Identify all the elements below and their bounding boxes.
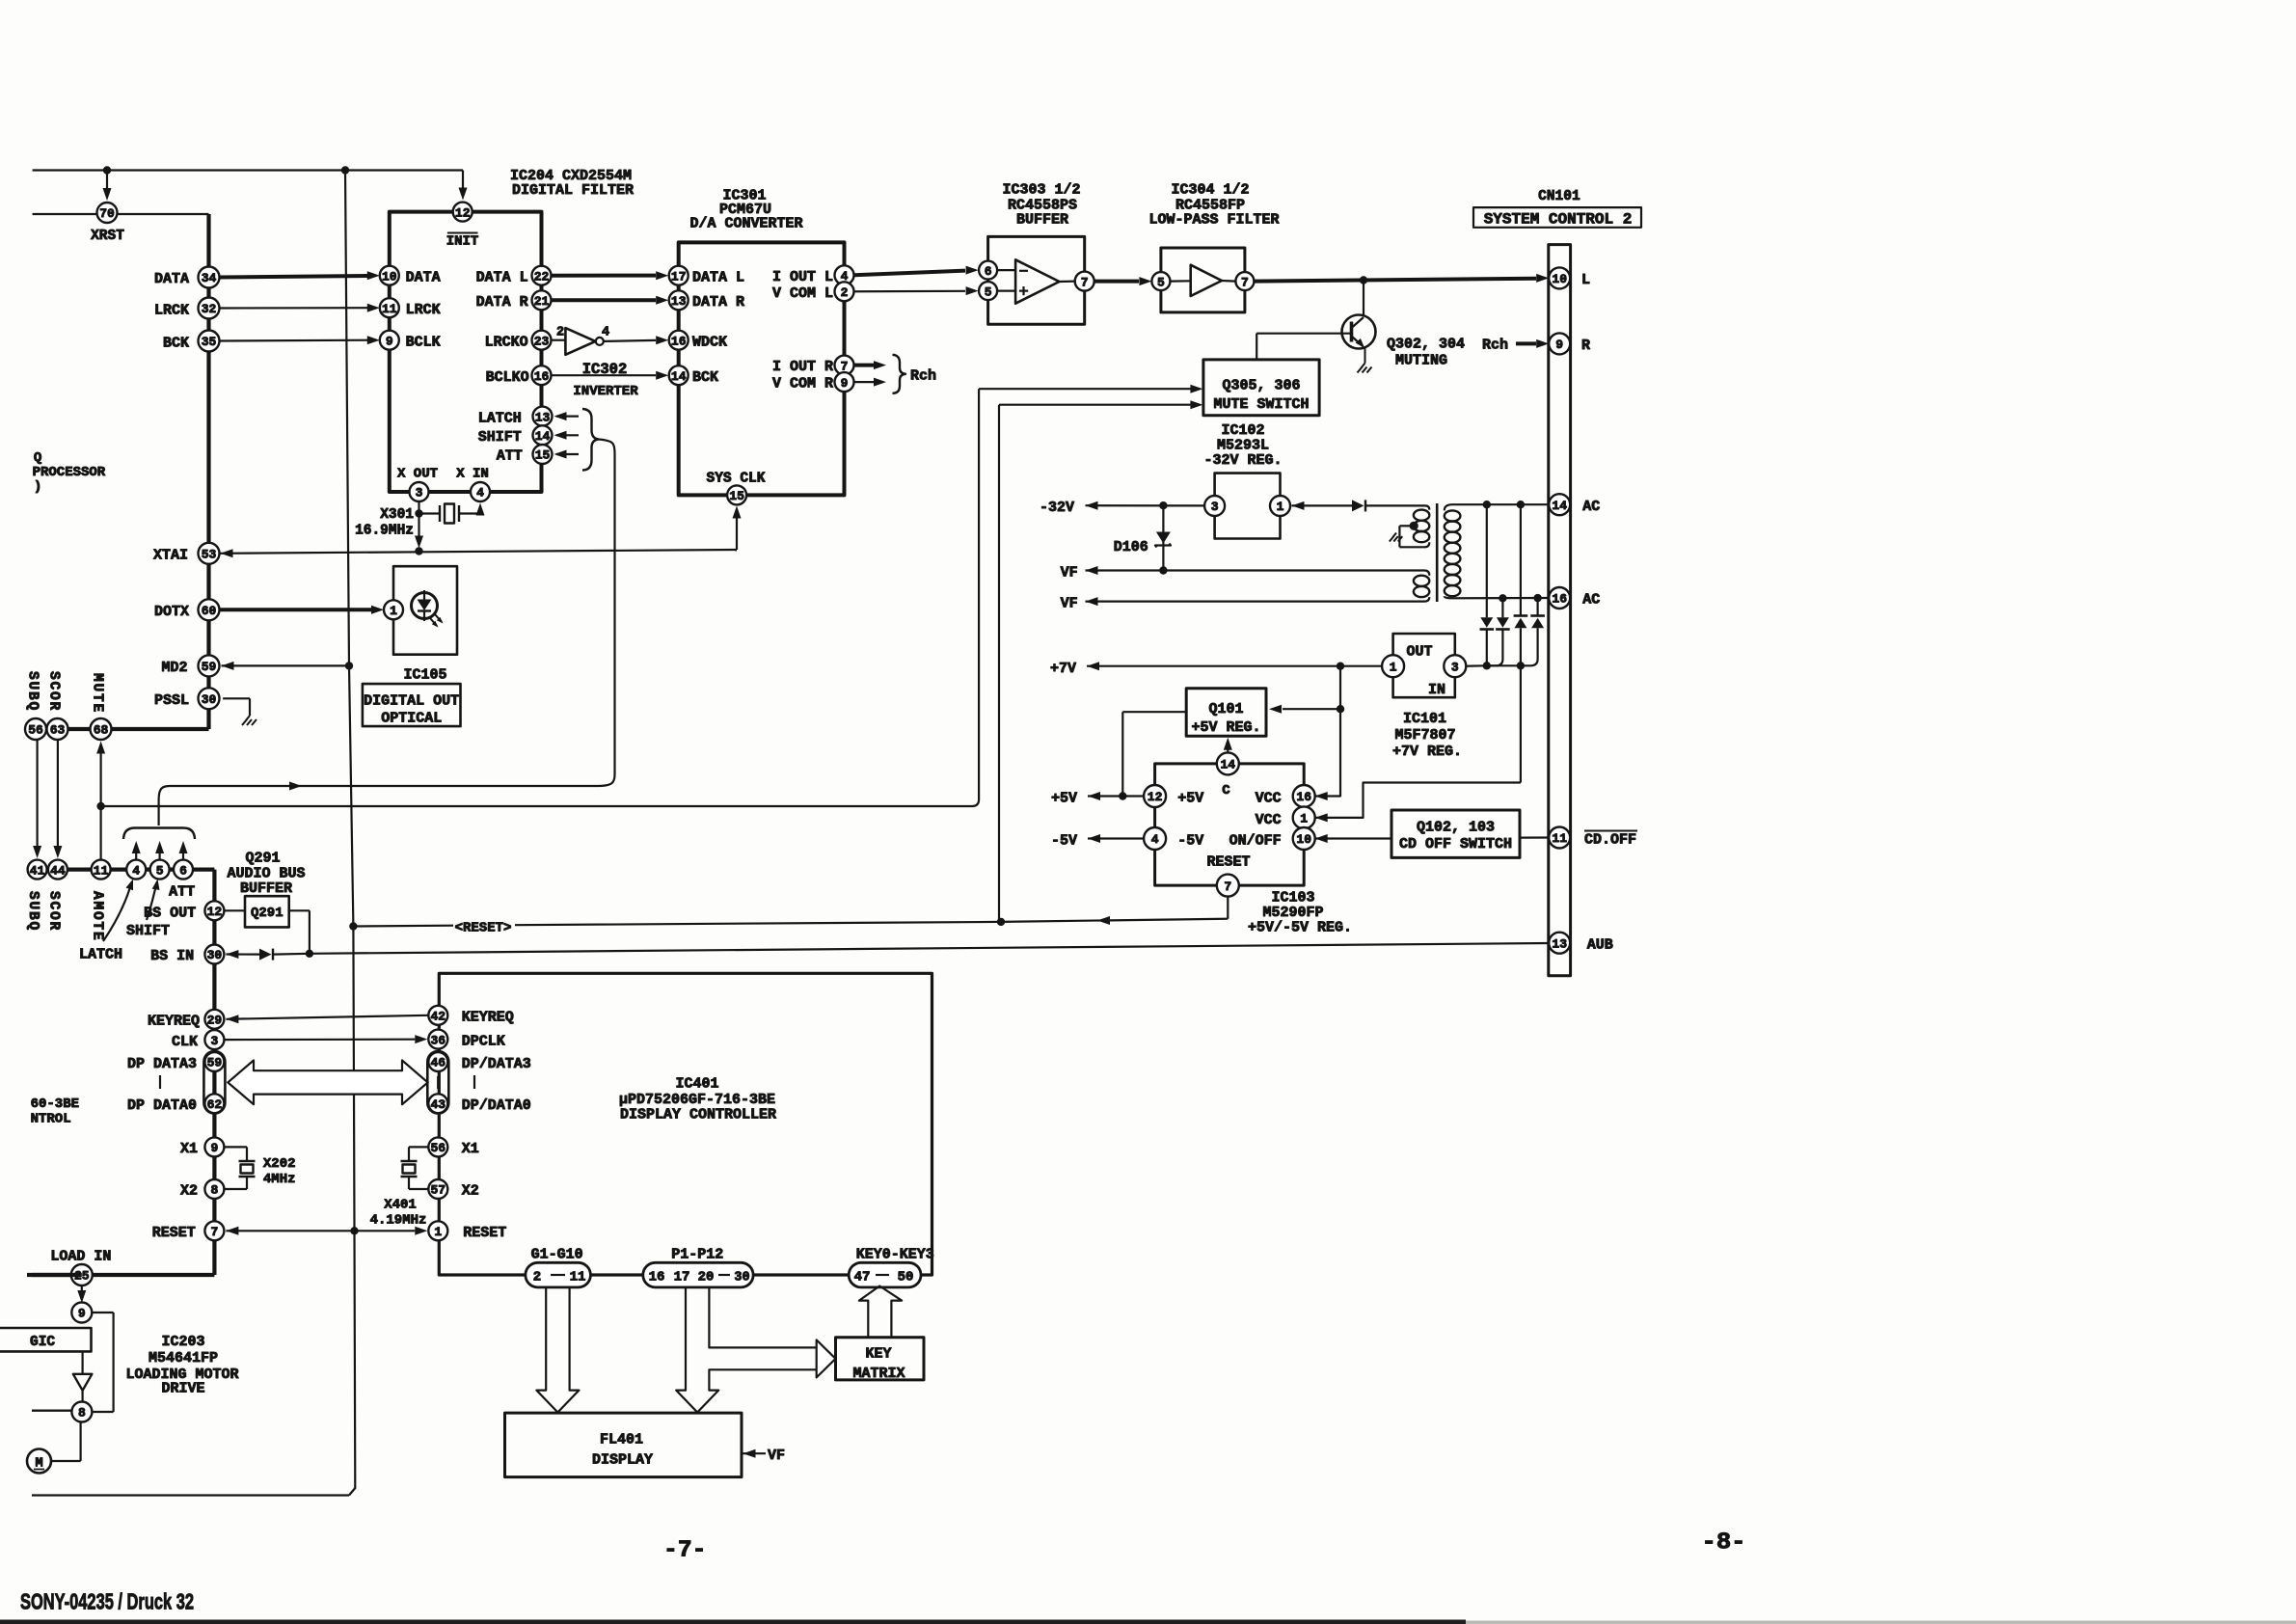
- svg-text:DP DATA0: DP DATA0: [127, 1097, 197, 1114]
- svg-text:+5V REG.: +5V REG.: [1191, 719, 1260, 736]
- svg-text:M5F7807: M5F7807: [1394, 727, 1455, 744]
- svg-text:MUTE: MUTE: [90, 673, 105, 714]
- svg-text:LATCH: LATCH: [79, 947, 122, 963]
- svg-text:57: 57: [430, 1183, 446, 1198]
- svg-text:Q101: Q101: [1208, 701, 1243, 717]
- svg-text:60: 60: [202, 604, 217, 618]
- svg-text:46: 46: [430, 1056, 446, 1070]
- svg-text:M54641FP: M54641FP: [149, 1350, 218, 1367]
- svg-text:CN101: CN101: [1538, 189, 1580, 204]
- svg-text:LOW-PASS FILTER: LOW-PASS FILTER: [1148, 212, 1279, 229]
- svg-text:3: 3: [1451, 660, 1459, 674]
- svg-text:30: 30: [207, 948, 223, 962]
- svg-text:4: 4: [476, 486, 484, 501]
- svg-text:21: 21: [534, 294, 550, 309]
- svg-text:6: 6: [985, 264, 992, 279]
- svg-text:BUFFER: BUFFER: [1016, 212, 1068, 229]
- svg-text:47: 47: [854, 1270, 871, 1286]
- svg-text:M5290FP: M5290FP: [1262, 905, 1323, 921]
- svg-text:3: 3: [416, 486, 423, 501]
- svg-text:LRCK: LRCK: [406, 302, 441, 318]
- svg-text:30: 30: [202, 692, 217, 707]
- svg-text:<RESET>: <RESET>: [455, 921, 512, 936]
- svg-text:BCK: BCK: [692, 369, 718, 386]
- svg-text:-5V: -5V: [1177, 833, 1203, 850]
- svg-text:36: 36: [430, 1033, 446, 1047]
- svg-text:X301: X301: [380, 507, 414, 523]
- svg-text:4: 4: [132, 863, 140, 878]
- svg-text:SCOR: SCOR: [46, 671, 62, 712]
- svg-text:OUT: OUT: [1406, 644, 1432, 661]
- svg-text:MUTE SWITCH: MUTE SWITCH: [1213, 396, 1309, 413]
- svg-text:44: 44: [50, 863, 66, 878]
- svg-text:INIT: INIT: [446, 234, 479, 250]
- svg-text:5: 5: [985, 284, 992, 299]
- svg-text:): ): [34, 479, 41, 495]
- svg-text:16: 16: [671, 334, 687, 348]
- svg-text:32: 32: [202, 302, 217, 316]
- svg-text:IC203: IC203: [161, 1334, 204, 1350]
- svg-text:AMOTE: AMOTE: [90, 891, 105, 942]
- svg-text:34: 34: [202, 271, 217, 285]
- svg-text:10: 10: [382, 269, 397, 284]
- svg-text:L: L: [1581, 272, 1590, 288]
- svg-text:X1: X1: [180, 1141, 198, 1157]
- svg-text:Q: Q: [34, 450, 41, 466]
- svg-text:DP DATA3: DP DATA3: [127, 1056, 197, 1072]
- svg-text:IC303 1/2: IC303 1/2: [1002, 182, 1080, 199]
- svg-text:I OUT R: I OUT R: [772, 359, 833, 375]
- svg-text:+7V: +7V: [1050, 661, 1076, 677]
- svg-text:AUB: AUB: [1587, 937, 1613, 954]
- svg-text:BCK: BCK: [163, 336, 189, 352]
- svg-text:15: 15: [535, 448, 551, 463]
- svg-text:DATA R: DATA R: [692, 294, 744, 311]
- svg-text:IC105: IC105: [403, 667, 446, 684]
- svg-text:3: 3: [1211, 500, 1219, 514]
- svg-text:+7V REG.: +7V REG.: [1392, 744, 1462, 760]
- svg-text:4: 4: [602, 326, 609, 340]
- svg-text:7: 7: [1081, 275, 1089, 289]
- svg-text:14: 14: [1220, 758, 1235, 772]
- svg-text:LRCKO: LRCKO: [485, 335, 528, 351]
- svg-text:V COM L: V COM L: [772, 285, 833, 302]
- svg-text:22: 22: [534, 269, 550, 284]
- svg-text:13: 13: [535, 410, 551, 424]
- svg-text:60-3BE: 60-3BE: [31, 1096, 79, 1112]
- svg-text:KEY: KEY: [865, 1346, 891, 1363]
- svg-text:12: 12: [207, 905, 223, 919]
- svg-text:Q302, 304: Q302, 304: [1387, 337, 1465, 353]
- svg-text:DRIVE: DRIVE: [161, 1381, 204, 1397]
- svg-text:16: 16: [534, 369, 550, 384]
- svg-text:AUDIO BUS: AUDIO BUS: [227, 866, 305, 882]
- svg-text:SHIFT: SHIFT: [126, 923, 170, 939]
- svg-text:IC102: IC102: [1221, 422, 1264, 439]
- svg-text:IC101: IC101: [1403, 711, 1446, 727]
- svg-text:R: R: [1581, 338, 1590, 354]
- svg-text:KEY0-KEY3: KEY0-KEY3: [856, 1247, 934, 1263]
- svg-text:DIGITAL OUT: DIGITAL OUT: [364, 693, 459, 710]
- svg-text:11: 11: [94, 863, 109, 878]
- svg-text:D/A CONVERTER: D/A CONVERTER: [689, 216, 802, 232]
- svg-text:CLK: CLK: [172, 1034, 198, 1050]
- svg-text:63: 63: [50, 723, 66, 738]
- svg-text:MUTING: MUTING: [1395, 353, 1447, 369]
- svg-text:Q102, 103: Q102, 103: [1417, 820, 1495, 836]
- svg-text:7: 7: [210, 1225, 218, 1239]
- svg-text:G1-G10: G1-G10: [531, 1247, 583, 1263]
- svg-text:KEYREQ: KEYREQ: [148, 1014, 200, 1030]
- svg-text:C: C: [1222, 783, 1230, 798]
- svg-text:+5V/-5V REG.: +5V/-5V REG.: [1248, 920, 1352, 936]
- svg-text:V COM R: V COM R: [772, 376, 833, 392]
- svg-text:IC103: IC103: [1271, 890, 1314, 907]
- svg-text:NTROL: NTROL: [31, 1112, 71, 1127]
- svg-text:1: 1: [1277, 500, 1284, 514]
- svg-text:X IN: X IN: [456, 467, 489, 482]
- svg-text:+5V: +5V: [1177, 791, 1203, 807]
- svg-text:50: 50: [898, 1270, 914, 1286]
- svg-text:BCLKO: BCLKO: [486, 369, 529, 386]
- svg-text:12: 12: [455, 205, 471, 220]
- svg-text:8: 8: [210, 1183, 218, 1198]
- svg-text:Rch: Rch: [910, 368, 936, 385]
- svg-text:68: 68: [94, 723, 109, 738]
- svg-text:9: 9: [210, 1141, 218, 1155]
- svg-text:9: 9: [841, 376, 849, 391]
- svg-text:53: 53: [202, 547, 217, 561]
- svg-text:I OUT L: I OUT L: [772, 269, 833, 285]
- svg-text:-8-: -8-: [1702, 1530, 1746, 1556]
- svg-text:X202: X202: [263, 1156, 296, 1172]
- svg-text:SUBQ: SUBQ: [25, 891, 41, 932]
- svg-text:13: 13: [1552, 936, 1567, 951]
- svg-text:56: 56: [28, 723, 43, 738]
- svg-text:20: 20: [698, 1270, 715, 1286]
- svg-text:GIC: GIC: [30, 1335, 55, 1350]
- svg-text:11: 11: [382, 302, 397, 316]
- svg-text:PROCESSOR: PROCESSOR: [33, 465, 106, 480]
- svg-text:59: 59: [207, 1056, 223, 1070]
- svg-text:DISPLAY: DISPLAY: [592, 1452, 653, 1469]
- svg-text:13: 13: [671, 294, 687, 309]
- svg-text:XTAI: XTAI: [153, 548, 188, 564]
- svg-text:SYSTEM CONTROL 2: SYSTEM CONTROL 2: [1484, 210, 1633, 228]
- svg-text:VF: VF: [1061, 596, 1078, 612]
- svg-text:10: 10: [1552, 272, 1567, 286]
- svg-text:2: 2: [841, 285, 849, 300]
- svg-text:7: 7: [1224, 880, 1231, 894]
- svg-text:RESET: RESET: [1206, 854, 1250, 871]
- svg-text:DOTX: DOTX: [154, 604, 189, 620]
- svg-text:7: 7: [1241, 275, 1249, 289]
- svg-text:+5V: +5V: [1051, 791, 1077, 807]
- svg-text:AC: AC: [1582, 499, 1600, 515]
- svg-text:BS IN: BS IN: [150, 948, 194, 964]
- svg-text:9: 9: [386, 334, 393, 348]
- svg-text:15: 15: [729, 489, 744, 503]
- svg-text:SYS CLK: SYS CLK: [707, 472, 766, 487]
- svg-text:OPTICAL: OPTICAL: [381, 711, 442, 727]
- svg-text:VF: VF: [1061, 565, 1078, 582]
- svg-text:IN: IN: [1428, 682, 1445, 698]
- svg-text:PSSL: PSSL: [154, 692, 189, 709]
- svg-text:SONY-04235 / Druck 32: SONY-04235 / Druck 32: [20, 1589, 194, 1614]
- svg-text:43: 43: [430, 1097, 446, 1112]
- svg-text:6: 6: [179, 863, 187, 878]
- svg-text:SUBQ: SUBQ: [25, 671, 41, 712]
- svg-text:4MHz: 4MHz: [263, 1172, 296, 1187]
- svg-text:Q305, 306: Q305, 306: [1222, 378, 1300, 394]
- svg-text:MATRIX: MATRIX: [852, 1366, 905, 1382]
- svg-text:8: 8: [78, 1406, 86, 1421]
- svg-text:16.9MHz: 16.9MHz: [355, 524, 414, 539]
- svg-text:X2: X2: [462, 1183, 479, 1200]
- svg-text:M5293L: M5293L: [1217, 438, 1269, 454]
- svg-text:X OUT: X OUT: [397, 467, 438, 482]
- svg-text:X2: X2: [180, 1183, 198, 1200]
- svg-text:11: 11: [1552, 831, 1567, 846]
- svg-text:9: 9: [1555, 338, 1563, 352]
- svg-text:BS OUT: BS OUT: [144, 905, 196, 921]
- svg-text:VCC: VCC: [1256, 812, 1282, 828]
- svg-text:5: 5: [156, 863, 164, 878]
- svg-text:DATA L: DATA L: [476, 270, 528, 286]
- svg-text:DP/DATA0: DP/DATA0: [462, 1097, 531, 1114]
- svg-text:Q291: Q291: [245, 851, 280, 867]
- svg-text:2: 2: [533, 1270, 541, 1286]
- svg-text:MD2: MD2: [161, 660, 187, 676]
- svg-text:RESET: RESET: [152, 1225, 196, 1241]
- svg-text:29: 29: [207, 1013, 223, 1027]
- svg-text:12: 12: [1148, 790, 1163, 804]
- svg-text:BCLK: BCLK: [406, 335, 441, 351]
- svg-text:AC: AC: [1582, 592, 1600, 609]
- svg-text:SHIFT: SHIFT: [478, 429, 522, 446]
- svg-text:2: 2: [556, 326, 564, 340]
- svg-text:70: 70: [99, 206, 115, 221]
- svg-text:DISPLAY CONTROLLER: DISPLAY CONTROLLER: [620, 1106, 776, 1123]
- svg-text:4: 4: [1151, 832, 1159, 847]
- svg-text:WDCK: WDCK: [692, 335, 727, 351]
- svg-text:FL401: FL401: [600, 1432, 643, 1448]
- svg-text:Q291: Q291: [251, 906, 284, 921]
- svg-text:41: 41: [30, 863, 45, 878]
- svg-text:DATA R: DATA R: [476, 294, 528, 311]
- svg-text:35: 35: [202, 335, 217, 349]
- svg-text:BUFFER: BUFFER: [240, 880, 292, 897]
- svg-text:-7-: -7-: [663, 1538, 707, 1564]
- svg-text:56: 56: [430, 1141, 446, 1155]
- svg-text:62: 62: [207, 1097, 223, 1112]
- svg-text:1: 1: [1390, 660, 1397, 674]
- svg-text:P1-P12: P1-P12: [671, 1247, 723, 1263]
- svg-text:DATA L: DATA L: [692, 270, 744, 286]
- svg-text:ON/OFF: ON/OFF: [1229, 833, 1282, 850]
- svg-text:DATA: DATA: [406, 270, 441, 286]
- svg-text:D106: D106: [1114, 539, 1148, 555]
- svg-text:16: 16: [649, 1270, 665, 1286]
- svg-text:59: 59: [202, 660, 217, 674]
- svg-text:SCOR: SCOR: [46, 891, 62, 932]
- svg-text:RESET: RESET: [463, 1225, 506, 1241]
- svg-text:X401: X401: [384, 1198, 417, 1213]
- svg-text:DPCLK: DPCLK: [462, 1034, 505, 1050]
- svg-text:LATCH: LATCH: [478, 410, 522, 426]
- svg-text:CD.OFF: CD.OFF: [1584, 832, 1636, 849]
- svg-text:XRST: XRST: [91, 229, 124, 244]
- svg-text:ATT: ATT: [169, 884, 195, 901]
- svg-text:4.19MHz: 4.19MHz: [370, 1213, 427, 1229]
- svg-text:1: 1: [390, 604, 397, 618]
- svg-text:14: 14: [671, 369, 687, 384]
- svg-text:3: 3: [210, 1034, 218, 1048]
- svg-text:VF: VF: [768, 1448, 785, 1464]
- svg-text:KEYREQ: KEYREQ: [462, 1010, 514, 1026]
- svg-text:23: 23: [534, 334, 550, 348]
- svg-text:-5V: -5V: [1051, 833, 1077, 850]
- svg-text:IC401: IC401: [675, 1076, 718, 1093]
- svg-text:DATA: DATA: [154, 271, 189, 287]
- svg-text:-32V REG.: -32V REG.: [1203, 452, 1282, 469]
- svg-text:42: 42: [430, 1009, 446, 1023]
- svg-text:11: 11: [570, 1270, 586, 1286]
- svg-text:9: 9: [78, 1307, 86, 1321]
- svg-text:1: 1: [1300, 812, 1308, 826]
- svg-text:17: 17: [671, 269, 687, 284]
- svg-text:INVERTER: INVERTER: [573, 384, 638, 399]
- svg-text:30: 30: [734, 1270, 749, 1285]
- svg-text:14: 14: [1552, 499, 1567, 513]
- svg-text:DP/DATA3: DP/DATA3: [462, 1056, 531, 1072]
- svg-text:16: 16: [1296, 790, 1311, 804]
- svg-text:-32V: -32V: [1040, 500, 1074, 516]
- svg-text:IC304 1/2: IC304 1/2: [1171, 182, 1249, 199]
- svg-text:17: 17: [674, 1270, 690, 1286]
- svg-text:5: 5: [1157, 275, 1165, 289]
- svg-text:1: 1: [434, 1225, 442, 1239]
- svg-text:CD OFF SWITCH: CD OFF SWITCH: [1399, 836, 1512, 853]
- svg-text:Rch: Rch: [1482, 338, 1508, 354]
- svg-text:LRCK: LRCK: [154, 303, 189, 319]
- svg-text:VCC: VCC: [1256, 791, 1282, 807]
- svg-text:X1: X1: [462, 1141, 479, 1157]
- svg-text:DIGITAL FILTER: DIGITAL FILTER: [512, 182, 634, 199]
- svg-text:16: 16: [1552, 592, 1567, 607]
- svg-text:ATT: ATT: [497, 448, 523, 465]
- svg-text:10: 10: [1296, 832, 1311, 847]
- svg-text:14: 14: [535, 429, 551, 444]
- svg-text:LOAD IN: LOAD IN: [50, 1249, 111, 1265]
